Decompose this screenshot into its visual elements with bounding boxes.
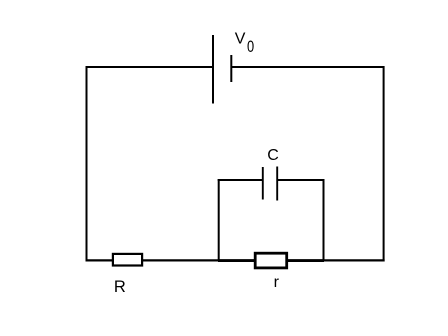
wire: bottom side of outer loop <box>86 259 385 261</box>
svg-text:R: R <box>114 278 126 296</box>
wire: inner loop left side <box>218 179 220 260</box>
capacitor C left plate <box>262 167 264 200</box>
wire: left side of outer loop <box>86 66 88 262</box>
wire: inner loop right side <box>323 179 325 260</box>
capacitor C right plate <box>276 167 278 201</box>
svg-text:V: V <box>235 31 246 48</box>
wire: shared bottom segment between inner-loop junctions <box>218 259 324 262</box>
wire: inner loop top, left of capacitor <box>218 179 263 181</box>
wire: right side of outer loop <box>383 66 385 262</box>
wire: top side, left of battery <box>86 66 214 68</box>
svg-text:0: 0 <box>247 38 254 56</box>
resistor r <box>255 253 287 268</box>
wire: top side, right of battery <box>231 66 384 68</box>
wire: inner loop top, right of capacitor <box>277 179 324 181</box>
svg-text:r: r <box>274 274 280 291</box>
battery V0 long plate (left) <box>212 35 214 104</box>
battery V0 short plate (right) <box>230 55 232 82</box>
svg-text:C: C <box>267 147 279 164</box>
resistor R <box>113 254 142 266</box>
label V0 <box>235 31 254 57</box>
